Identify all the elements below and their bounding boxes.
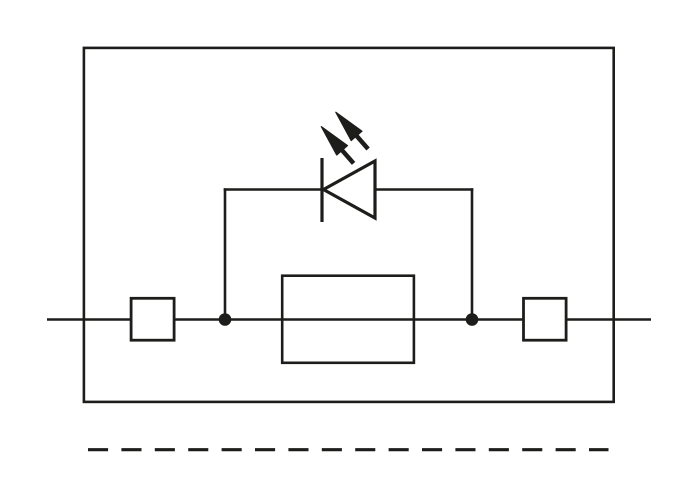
DIN rail marker (dashed line)	[88, 448, 609, 451]
LED light arrow upper	[336, 112, 368, 149]
LED light arrow lower	[321, 127, 353, 164]
terminal clamp right	[524, 298, 567, 340]
terminal clamp left	[131, 298, 174, 340]
enclosure outline	[84, 48, 614, 402]
wire: branch top left segment	[224, 188, 322, 191]
wire: right branch riser	[471, 188, 474, 319]
node A (left junction)	[219, 313, 232, 326]
fuse F1	[282, 276, 414, 363]
wire: main through conductor	[47, 318, 651, 321]
LED D1 cathode bar	[320, 158, 323, 222]
LED D1 triangle	[324, 161, 376, 218]
wire: branch top right segment	[375, 188, 473, 191]
wire: left branch riser	[224, 188, 227, 319]
node B (right junction)	[466, 313, 479, 326]
